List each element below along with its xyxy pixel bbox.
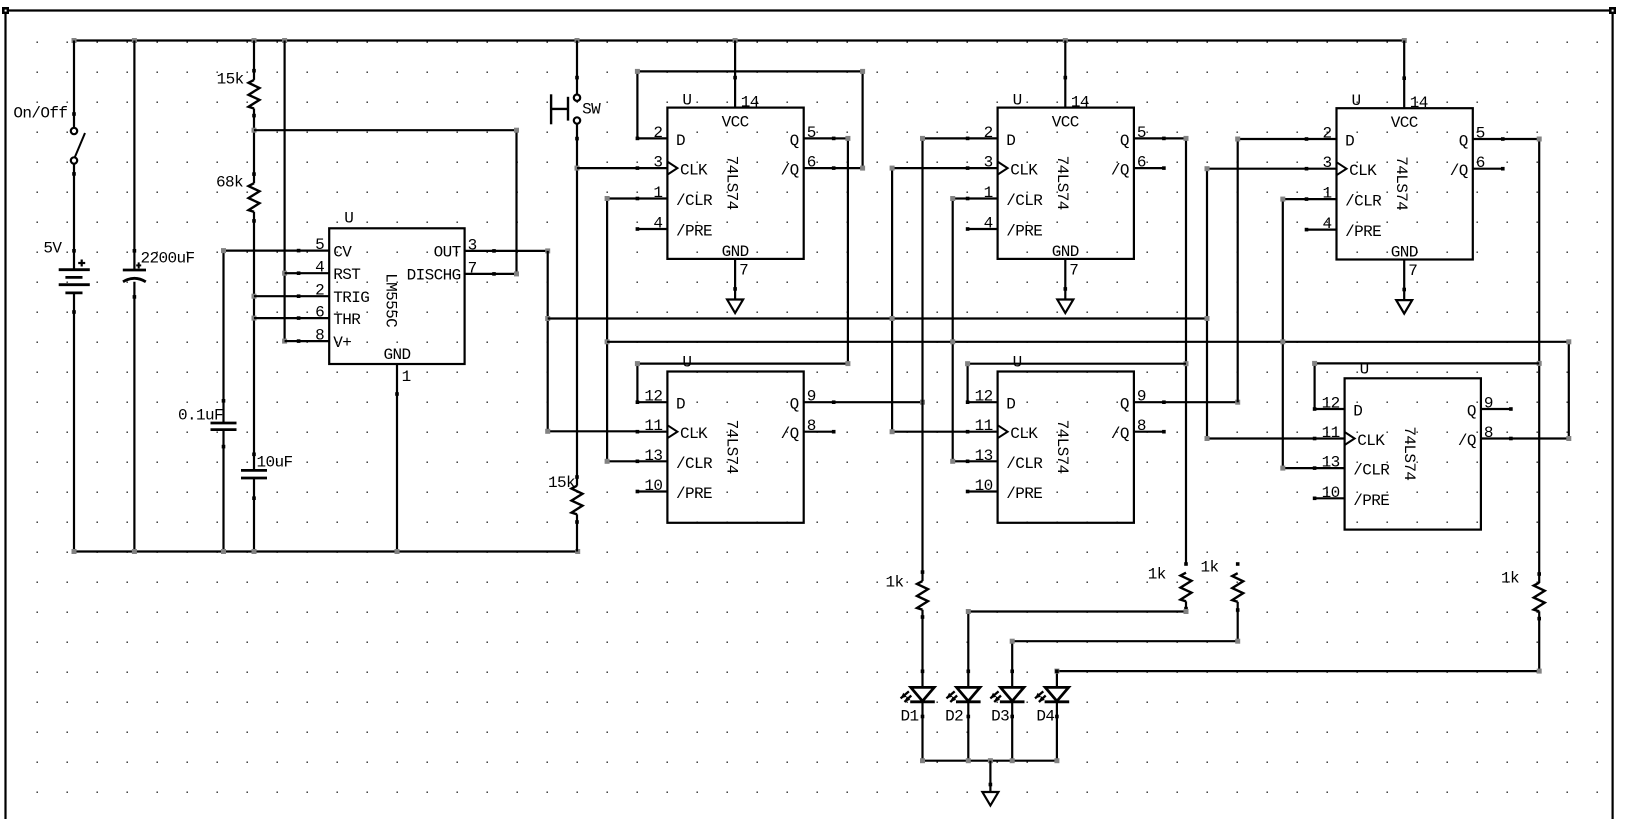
svg-text:U: U: [682, 92, 691, 110]
svg-text:6: 6: [1137, 154, 1146, 172]
svg-text:4: 4: [315, 259, 324, 277]
svg-text:U: U: [1013, 354, 1022, 372]
svg-text:CLK: CLK: [680, 425, 708, 443]
svg-text:On/Off: On/Off: [13, 105, 67, 123]
node CV corner: [221, 248, 226, 253]
pin 5 Q of U4a: [1473, 138, 1503, 140]
pin 8 V+ of U1: [299, 340, 330, 342]
svg-text:/CLR: /CLR: [1345, 193, 1382, 211]
wire Q9 U2b to stage2: [834, 401, 923, 403]
svg-text:U: U: [1352, 92, 1361, 110]
svg-text:/PRE: /PRE: [676, 223, 712, 241]
svg-text:7: 7: [1408, 262, 1417, 280]
svg-text:74LS74: 74LS74: [723, 420, 741, 474]
svg-text:5V: 5V: [43, 240, 62, 258]
pin 1 /CLR of U2a: [637, 197, 667, 199]
pin 2 TRIG of U1: [299, 295, 330, 297]
wire /Q8 U4b to /CLR bus: [1511, 437, 1569, 439]
wire D2 to bus: [967, 702, 969, 761]
wire /CLR chain stage1: [607, 197, 637, 199]
wire CLK net stage2: [892, 167, 968, 169]
svg-text:1k: 1k: [1501, 570, 1519, 588]
wire switch to battery: [73, 164, 75, 270]
pin 2 D of U4a: [1307, 138, 1337, 140]
svg-text:Q: Q: [790, 132, 799, 150]
node D2 corner U3a: [920, 136, 925, 141]
pin 7 DISCHG of U1: [465, 273, 494, 275]
pin 2 D of U3a: [968, 137, 998, 139]
pin 7 GND of U2a: [734, 259, 736, 300]
svg-text:3: 3: [468, 236, 477, 254]
svg-text:1: 1: [653, 184, 662, 202]
svg-text:1k: 1k: [886, 574, 904, 592]
wire DISCHG link: [254, 129, 517, 131]
svg-text:Q: Q: [1459, 133, 1468, 151]
node DISCHG corners: [514, 128, 519, 133]
pin 1 GND of U1: [396, 364, 398, 552]
wire D3 to bus: [1011, 702, 1013, 761]
svg-text:U: U: [344, 209, 353, 227]
74LS74 U3a box: [998, 108, 1134, 259]
svg-text:13: 13: [644, 447, 662, 465]
svg-text:/CLR: /CLR: [676, 192, 713, 210]
wire D2 net U3a: [921, 138, 923, 402]
ground U3a: [1057, 300, 1073, 314]
node V+ corner: [282, 339, 287, 344]
node D2 link corners: [966, 609, 971, 614]
svg-text:CLK: CLK: [1349, 162, 1377, 180]
svg-text:15k: 15k: [548, 474, 575, 492]
74LS74 U4a box: [1337, 108, 1473, 259]
svg-text:D3: D3: [991, 708, 1009, 726]
svg-text:12: 12: [975, 388, 993, 406]
svg-text:Q: Q: [1120, 132, 1129, 150]
svg-text:D: D: [1345, 133, 1354, 151]
svg-text:9: 9: [1484, 395, 1493, 413]
svg-text:7: 7: [739, 262, 748, 280]
capacitor C3 10uF: [241, 469, 267, 472]
svg-text:/PRE: /PRE: [1006, 485, 1042, 503]
wire CLK net stage3: [1207, 168, 1307, 170]
node rail junctions: [72, 38, 77, 43]
svg-text:D2: D2: [945, 708, 963, 726]
wire R6 to D3 link: [1237, 602, 1239, 641]
svg-text:74LS74: 74LS74: [1392, 156, 1410, 210]
svg-text:GND: GND: [1391, 244, 1418, 262]
svg-text:1: 1: [984, 184, 993, 202]
wire D1 to bus: [921, 702, 923, 761]
svg-text:74LS74: 74LS74: [1053, 156, 1071, 210]
node /CLR stage3 corners: [1280, 197, 1285, 202]
svg-text:VCC: VCC: [722, 114, 749, 132]
node Q9 junction: [920, 400, 925, 405]
wire SW to CLK3 U2a: [577, 167, 637, 169]
svg-text:GND: GND: [722, 243, 749, 261]
wire V+ RST column: [284, 41, 286, 342]
svg-text:/Q: /Q: [1111, 162, 1129, 180]
node /CLR corners stage1: [605, 196, 610, 201]
svg-text:OUT: OUT: [434, 243, 461, 261]
svg-text:14: 14: [1071, 94, 1089, 112]
svg-text:2: 2: [653, 124, 662, 142]
LED D3: [1001, 687, 1024, 701]
svg-text:1: 1: [1322, 185, 1331, 203]
pin 4 RST of U1: [299, 272, 330, 274]
wire R5 to D2 link: [1185, 601, 1187, 611]
pin 13 /CLR of U3b: [968, 460, 998, 462]
capacitor C2 0.1uF: [211, 422, 237, 425]
svg-text:8: 8: [315, 327, 324, 345]
svg-text:Q: Q: [790, 396, 799, 414]
svg-text:D: D: [1006, 132, 1015, 150]
svg-text:5: 5: [1476, 125, 1485, 143]
pin 6 /Q of U4a: [1473, 168, 1503, 170]
wire RST: [285, 272, 299, 274]
ground U4a: [1396, 300, 1412, 314]
node Q5 link corners: [845, 136, 850, 141]
svg-text:0.1uF: 0.1uF: [178, 407, 223, 425]
node D3 link corners: [1010, 639, 1015, 644]
node /Q8 feedback corners: [1566, 339, 1571, 344]
svg-text:Q: Q: [1467, 403, 1476, 421]
svg-text:CLK: CLK: [1010, 425, 1038, 443]
svg-text:D: D: [1006, 396, 1015, 414]
pin 8 /Q of U2b: [804, 431, 834, 433]
svg-text:9: 9: [807, 388, 816, 406]
svg-text:LM555C: LM555C: [381, 273, 399, 327]
wire switch top: [73, 41, 75, 128]
pin 11 CLK of U3b: [968, 431, 998, 433]
pin 1 /CLR of U3a: [968, 197, 998, 199]
node D12 corner U3b: [965, 361, 970, 366]
node Q9 U3b junction: [1235, 400, 1240, 405]
svg-text:8: 8: [1137, 417, 1146, 435]
svg-text:SW: SW: [582, 101, 601, 119]
svg-text:3: 3: [1322, 154, 1331, 172]
node LED bus junctions: [920, 758, 925, 763]
wire Q5 U3a link: [1164, 137, 1186, 139]
svg-text:V+: V+: [333, 334, 351, 352]
wire Q5 U2a to D12 U2b: [834, 137, 848, 139]
svg-text:4: 4: [984, 215, 993, 233]
pin 11 CLK of U2b: [637, 431, 667, 433]
pin 10 /PRE of U2b: [637, 490, 667, 492]
node D2 corner U4a: [1235, 137, 1240, 142]
pin 3 CLK of U3a: [968, 167, 998, 169]
pin 3 OUT of U1: [465, 250, 494, 252]
resistor R4 1k: [917, 581, 928, 610]
svg-text:11: 11: [1322, 424, 1340, 442]
op-amp U1 LM555C box: [329, 228, 464, 364]
svg-text:/CLR: /CLR: [1353, 462, 1390, 480]
node bus junctions: [72, 549, 77, 554]
wire rail to SW: [576, 41, 578, 95]
pin 14 VCC of U3a: [1064, 78, 1066, 108]
svg-text:D1: D1: [901, 708, 919, 726]
svg-text:/Q: /Q: [781, 425, 799, 443]
node TRIG junction: [252, 294, 257, 299]
svg-text:7: 7: [1069, 262, 1078, 280]
battery V1 5V: [59, 268, 90, 271]
svg-text:13: 13: [1322, 454, 1340, 472]
svg-text:7: 7: [468, 259, 477, 277]
wire ground bus: [74, 550, 578, 552]
wire OUT down: [547, 251, 549, 431]
svg-text:VCC: VCC: [1391, 114, 1418, 132]
svg-text:3: 3: [653, 154, 662, 172]
svg-text:RST: RST: [333, 266, 360, 284]
svg-text:6: 6: [315, 304, 324, 322]
svg-text:/PRE: /PRE: [1345, 223, 1381, 241]
pin 4 /PRE of U2a: [637, 228, 667, 230]
svg-text:9: 9: [1137, 388, 1146, 406]
pin 14 VCC of U2a: [734, 78, 736, 108]
wire LED bus to ground: [989, 761, 991, 792]
wire 68k to 10uF: [253, 212, 255, 471]
wire rail to VCC U4a: [1403, 41, 1405, 79]
node Q5 U4a corners: [1537, 137, 1542, 142]
wire TRIG: [254, 295, 299, 297]
svg-text:D4: D4: [1036, 708, 1054, 726]
svg-text:CLK: CLK: [1357, 432, 1385, 450]
node Q5 U3a corners: [1184, 136, 1189, 141]
resistor R3 15k: [572, 486, 583, 515]
svg-text:/CLR: /CLR: [1006, 455, 1043, 473]
node feedback corners U2a: [635, 69, 640, 74]
svg-text:D: D: [1353, 403, 1362, 421]
svg-text:U: U: [1013, 92, 1022, 110]
74LS74 U2b box: [667, 372, 803, 523]
corner marker top-left: [2, 7, 9, 14]
pin 3 CLK of U2a: [637, 167, 667, 169]
svg-text:13: 13: [975, 447, 993, 465]
LED D4: [1045, 687, 1068, 701]
svg-text:68k: 68k: [216, 173, 243, 191]
pin 4 /PRE of U4a: [1307, 229, 1337, 231]
svg-text:TRIG: TRIG: [333, 289, 369, 307]
svg-text:/PRE: /PRE: [676, 485, 712, 503]
svg-text:/CLR: /CLR: [676, 455, 713, 473]
pin 6 THR of U1: [299, 317, 330, 319]
wire SW down to 15k: [576, 124, 578, 486]
pin 10 /PRE of U4b: [1315, 497, 1345, 499]
svg-text:10: 10: [975, 477, 993, 495]
pin 9 Q of U2b: [804, 401, 834, 403]
svg-text:GND: GND: [1052, 243, 1079, 261]
svg-text:4: 4: [653, 215, 662, 233]
node THR junction: [252, 316, 257, 321]
svg-text:5: 5: [315, 236, 324, 254]
wire 0.1uF to bus: [222, 430, 224, 552]
pin 9 Q of U4b: [1481, 408, 1511, 410]
node CLK stage2 corners: [890, 166, 895, 171]
wire OUT to CLK11 FF1b: [548, 430, 638, 432]
pin 9 Q of U3b: [1134, 401, 1164, 403]
wire OUT bus: [548, 317, 1207, 319]
pin 4 /PRE of U3a: [968, 228, 998, 230]
wire V+ rail: [74, 39, 1404, 41]
wire THR: [254, 317, 299, 319]
wire D4 to bus: [1056, 702, 1058, 761]
node /CLR stage2 corners: [950, 196, 955, 201]
svg-text:15k: 15k: [217, 70, 244, 88]
pin 12 D of U3b: [968, 401, 998, 403]
pin 3 CLK of U4a: [1307, 168, 1337, 170]
pin 13 /CLR of U4b: [1315, 467, 1345, 469]
svg-text:10: 10: [644, 477, 662, 495]
wire rail to 15k: [253, 41, 255, 80]
pin 5 Q of U2a: [804, 137, 834, 139]
svg-text:/Q: /Q: [1458, 432, 1476, 450]
LED D2: [957, 687, 980, 701]
svg-text:/Q: /Q: [1111, 425, 1129, 443]
svg-text:D: D: [676, 132, 685, 150]
svg-text:/Q: /Q: [1450, 162, 1468, 180]
node OUT bus tap: [545, 316, 550, 321]
wire 10uF to bus: [253, 478, 255, 552]
wire /CLR stage2: [953, 197, 968, 199]
wire V+ pin: [285, 340, 299, 342]
ground LED bus: [982, 792, 998, 806]
svg-text:D: D: [676, 396, 685, 414]
pin 10 /PRE of U3b: [968, 490, 998, 492]
ground U2a: [727, 300, 743, 314]
svg-text:THR: THR: [333, 311, 361, 329]
pin 6 /Q of U3a: [1134, 167, 1164, 169]
74LS74 U4b box: [1345, 378, 1481, 529]
svg-text:/CLR: /CLR: [1006, 192, 1043, 210]
wire /Q6-D2 feedback U2a: [636, 71, 638, 138]
pin 5 CV of U1: [299, 250, 330, 252]
svg-text:11: 11: [975, 417, 993, 435]
svg-text:/Q: /Q: [781, 162, 799, 180]
switch SW1 On/Off: [71, 128, 77, 134]
wire LED ground bus: [923, 760, 1057, 762]
pin 12 D of U2b: [637, 401, 667, 403]
wire D12 link U4b: [1315, 362, 1540, 364]
svg-text:2: 2: [315, 282, 324, 300]
node D4 link corners: [1054, 669, 1059, 674]
svg-text:12: 12: [1322, 395, 1340, 413]
pin 11 CLK of U4b: [1315, 437, 1345, 439]
svg-text:14: 14: [1410, 94, 1428, 112]
wire Q9 U3b to stage3: [1164, 401, 1238, 403]
wire /CLR stage3: [1283, 198, 1307, 200]
pin 14 VCC of U4a: [1403, 78, 1405, 108]
wire R7 to D4 link: [1538, 611, 1540, 671]
wire Q9 to R4 to D1: [921, 402, 923, 581]
svg-text:1: 1: [402, 368, 411, 386]
74LS74 U2a box: [667, 108, 803, 259]
pin 8 /Q of U4b: [1481, 437, 1511, 439]
74LS74 U3b box: [998, 372, 1134, 523]
resistor R7 1k: [1534, 583, 1545, 612]
svg-text:4: 4: [1322, 215, 1331, 233]
svg-text:6: 6: [1476, 154, 1485, 172]
svg-text:2: 2: [1322, 125, 1331, 143]
svg-text:74LS74: 74LS74: [1400, 426, 1418, 480]
svg-text:Q: Q: [1120, 396, 1129, 414]
svg-text:74LS74: 74LS74: [1053, 420, 1071, 474]
resistor R6 1k: [1232, 573, 1243, 602]
wire 15k to bus: [576, 514, 578, 551]
wire 2200uF top: [133, 41, 135, 271]
svg-text:CLK: CLK: [1010, 162, 1038, 180]
svg-text:10uF: 10uF: [257, 454, 293, 472]
wire CV link: [224, 250, 299, 252]
svg-text:5: 5: [1137, 124, 1146, 142]
wire 15k to 68k: [253, 109, 255, 184]
svg-text:3: 3: [984, 154, 993, 172]
pin 12 D of U4b: [1315, 408, 1345, 410]
svg-text:GND: GND: [383, 346, 410, 364]
svg-text:2: 2: [984, 124, 993, 142]
capacitor C1 2200uF: [123, 269, 146, 272]
pushbutton SW: [574, 95, 580, 101]
svg-text:CLK: CLK: [680, 162, 708, 180]
svg-text:/PRE: /PRE: [1006, 223, 1042, 241]
wire Q5 U4a link: [1502, 138, 1540, 140]
svg-text:1k: 1k: [1148, 566, 1166, 584]
wire D12 link U3b: [968, 363, 1186, 365]
pin 1 /CLR of U4a: [1307, 198, 1337, 200]
svg-text:5: 5: [807, 124, 816, 142]
pin 2 D of U2a: [637, 137, 667, 139]
svg-text:CV: CV: [333, 244, 352, 262]
wire D2 net U4a: [1237, 139, 1239, 402]
LED D1: [911, 687, 934, 701]
node OUT elbow: [545, 429, 550, 434]
corner marker top-right: [1609, 7, 1616, 14]
node DISCHG branch: [252, 128, 257, 133]
svg-text:8: 8: [1484, 424, 1493, 442]
wire rail to VCC U3a: [1064, 41, 1066, 78]
pin 8 /Q of U3b: [1134, 431, 1164, 433]
node CLK stage3 corners: [1205, 166, 1210, 171]
wire /CLR bus: [607, 341, 1569, 343]
svg-text:6: 6: [807, 154, 816, 172]
node RST junction: [282, 271, 287, 276]
wire OUT right: [494, 250, 548, 252]
pin 7 GND of U3a: [1064, 259, 1066, 300]
svg-text:2200uF: 2200uF: [141, 249, 195, 267]
node CLK3 FF1 tap: [575, 166, 580, 171]
svg-text:8: 8: [807, 417, 816, 435]
svg-text:DISCHG: DISCHG: [407, 266, 461, 284]
node OUT corner: [545, 248, 550, 253]
svg-text:1k: 1k: [1201, 559, 1219, 577]
pin 5 Q of U3a: [1134, 137, 1164, 139]
svg-text:VCC: VCC: [1052, 114, 1079, 132]
node D12 corner U4b: [1312, 361, 1317, 366]
svg-text:/PRE: /PRE: [1353, 492, 1389, 510]
wire battery to ground bus: [73, 293, 75, 552]
pin 7 GND of U4a: [1403, 260, 1405, 301]
svg-text:11: 11: [644, 417, 662, 435]
pin 13 /CLR of U2b: [637, 460, 667, 462]
svg-text:14: 14: [741, 94, 759, 112]
wire 2200uF bottom: [133, 282, 135, 552]
svg-text:74LS74: 74LS74: [723, 156, 741, 210]
pin 6 /Q of U2a: [804, 167, 834, 169]
resistor R2 68k: [249, 183, 260, 212]
resistor R1 15k: [249, 80, 260, 109]
svg-text:10: 10: [1322, 484, 1340, 502]
svg-text:12: 12: [644, 388, 662, 406]
wire rail to VCC U2a: [734, 41, 736, 78]
resistor R5 1k: [1181, 573, 1192, 602]
